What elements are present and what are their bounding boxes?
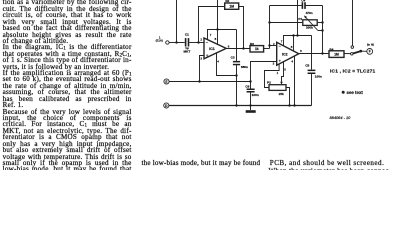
wire C5 lower to D rail: [311, 74, 313, 106]
junction differentiator node: [197, 41, 199, 43]
capacitor C5 plates: [308, 70, 316, 72]
svg-text:(to hi): (to hi): [367, 43, 374, 47]
wire P2 right end to D rail: [286, 88, 290, 106]
svg-text:25k: 25k: [279, 92, 284, 96]
resistor R3: [250, 46, 264, 52]
svg-text:8: 8: [215, 37, 217, 41]
capacitor C3 plates: [233, 61, 240, 63]
wire node to IC2 pin 2: [270, 45, 277, 47]
wire IC2 pin 7 jog: [284, 36, 312, 46]
junction IC2 pin 8 jog: [292, 34, 294, 36]
svg-text:R4: R4: [329, 47, 333, 51]
wire IC2 pin 1 to P2 left end: [265, 64, 280, 88]
junction input node: [175, 41, 177, 43]
wire C5 upper: [311, 36, 313, 70]
wire IC1 output to R3: [226, 48, 250, 50]
wire IC2 pin 5 to P2 wiper: [282, 62, 284, 82]
P1 arrowhead: [304, 15, 307, 18]
switch S1B contact a: [351, 53, 354, 56]
wire D rail: [169, 105, 312, 107]
wire IC2 pin 8 stub: [293, 36, 295, 52]
wire IC2 inverting node riser: [269, 6, 271, 49]
wire input riser from top edge: [176, 0, 178, 43]
wire R4 to switch contact: [344, 53, 351, 55]
ground stub: [250, 106, 252, 111]
wire C4 branch right: [306, 5, 323, 7]
P2 wiper arrow: [280, 82, 283, 85]
wire C3 upper: [236, 30, 238, 62]
svg-text:R2: R2: [225, 0, 229, 3]
wire IC1 pin 7 jog: [208, 30, 237, 40]
svg-text:6: 6: [228, 44, 230, 48]
wire IC2 V+ riser: [297, 0, 299, 36]
terminal D: [164, 103, 169, 108]
junction P1 wiper tie: [321, 29, 323, 31]
svg-text:C1: C1: [185, 33, 189, 37]
wire C6 upper: [250, 82, 252, 89]
wire IC2 pin 4 to D rail: [294, 56, 296, 106]
ground symbol: [246, 110, 256, 113]
junction C3 D rail: [235, 104, 237, 106]
svg-text:IC1: IC1: [209, 47, 215, 51]
terminal 1 (S1A): [166, 41, 169, 44]
svg-text:R3: R3: [250, 42, 254, 46]
wire C6 lower: [250, 93, 252, 106]
wire IC2 output to R4: [299, 53, 329, 55]
wire input terminal to C1: [169, 42, 185, 44]
svg-text:100k: 100k: [306, 26, 313, 30]
svg-text:5: 5: [284, 67, 286, 71]
wire V+ riser / IC1 pin 8: [217, 0, 219, 45]
wire C1 to IC1 pin 2: [189, 42, 204, 44]
svg-text:7: 7: [210, 33, 212, 37]
svg-text:C6: C6: [245, 85, 249, 89]
junction P1 branch right: [321, 21, 323, 23]
junction P1 branch left: [268, 21, 270, 23]
potentiometer P1 body: [303, 20, 317, 26]
op-amp IC2: [277, 42, 299, 65]
resistor R4: [329, 51, 344, 58]
op-amp IC1: [204, 38, 226, 59]
junction C6 D rail: [249, 104, 251, 106]
wire feedback left riser: [199, 7, 225, 43]
junction IC2 pin 4 D rail: [293, 104, 295, 106]
legend see-text star: [342, 91, 345, 94]
wire C3 lower to D rail: [236, 65, 238, 105]
svg-text:C3: C3: [231, 56, 235, 60]
junction IC1 pin 3 E rail: [198, 80, 200, 82]
svg-text:MKT: MKT: [184, 50, 191, 54]
wire feedback right riser to output: [239, 7, 244, 49]
svg-text:1M: 1M: [334, 52, 339, 56]
svg-text:4: 4: [217, 59, 219, 63]
svg-text:P1: P1: [298, 17, 302, 21]
wire IC2 pin 3 to E rail: [251, 62, 277, 82]
svg-text:P2: P2: [267, 81, 271, 85]
svg-text:1: 1: [277, 71, 279, 75]
svg-text:(S1A): (S1A): [156, 39, 163, 43]
svg-text:C5: C5: [305, 63, 309, 67]
svg-text:1M: 1M: [229, 5, 234, 9]
terminal F: [367, 49, 373, 55]
svg-text:8: 8: [291, 45, 293, 49]
wire feedback right riser IC2: [322, 6, 324, 54]
wire P1 branch left: [270, 22, 303, 24]
switch S1B lever: [353, 50, 362, 54]
svg-text:470n: 470n: [306, 11, 313, 15]
wire IC1 pin 3 to E rail: [200, 56, 205, 82]
capacitor C1 plates: [185, 38, 187, 46]
wire E rail: [169, 81, 250, 83]
svg-text:C4: C4: [301, 0, 305, 3]
svg-text:6: 6: [300, 49, 302, 53]
wire P1 branch right: [317, 22, 322, 24]
wire switch riser from top edge: [352, 0, 354, 46]
svg-text:3: 3: [200, 57, 202, 61]
svg-text:100n: 100n: [315, 75, 322, 79]
svg-text:680n: 680n: [241, 65, 248, 69]
wire C4 branch left: [270, 5, 302, 7]
capacitor C6 plates: [247, 89, 255, 91]
resistor R2: [225, 3, 239, 9]
wire P1 wiper tie: [318, 30, 323, 32]
junction IC2 V+ jog: [296, 34, 298, 36]
capacitor C4 plates: [302, 2, 304, 9]
junction E rail C6: [249, 80, 251, 82]
svg-text:100n: 100n: [252, 93, 259, 97]
svg-text:IC2: IC2: [282, 53, 288, 57]
junction IC1 output: [242, 47, 244, 49]
wire R3 to IC2 node: [264, 48, 270, 50]
potentiometer P1 wiper arrow: [306, 18, 318, 31]
terminal E: [164, 79, 169, 84]
wire switch to terminal F: [362, 50, 367, 52]
junction IC2 pin 2: [268, 44, 270, 46]
svg-text:4: 4: [291, 60, 293, 64]
preset P2 body: [269, 85, 286, 91]
junction pin4 C3: [235, 74, 237, 76]
junction IC2 output: [321, 52, 323, 54]
switch S1B contact b: [351, 46, 354, 49]
svg-text:IC1 , IC2 = TLC271: IC1 , IC2 = TLC271: [330, 69, 375, 75]
svg-text:1k: 1k: [255, 47, 259, 51]
svg-text:884084 - 10: 884084 - 10: [330, 115, 352, 120]
svg-text:2: 2: [200, 38, 202, 42]
junction P2 D rail: [288, 104, 290, 106]
wire IC1 pin 4 to C3 ground line: [217, 53, 237, 75]
svg-text:F: F: [369, 50, 371, 54]
junction IC1 V+: [216, 28, 218, 30]
svg-text:see text: see text: [347, 90, 364, 95]
